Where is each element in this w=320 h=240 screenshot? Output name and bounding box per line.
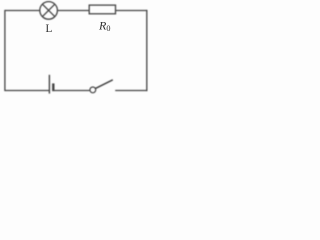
wire bottom-left segment <box>5 90 49 92</box>
switch pivot circle <box>90 87 96 93</box>
wire left vertical <box>4 10 6 91</box>
label L (lamp designator) <box>45 23 52 35</box>
switch blade (open) <box>96 80 113 89</box>
battery long plate (positive) <box>48 75 50 94</box>
svg-text:L: L <box>45 23 52 35</box>
wire top-right segment <box>116 10 148 12</box>
wire between lamp and resistor <box>57 10 89 12</box>
lamp L (circle) <box>40 2 58 20</box>
resistor R0 (box) <box>89 5 115 14</box>
wire right vertical <box>146 10 148 91</box>
battery short plate (negative) <box>52 83 54 91</box>
lamp L cross diagonal 2 <box>42 4 54 16</box>
wire battery to switch <box>54 90 90 92</box>
wire switch to bottom-right corner <box>115 90 147 92</box>
lamp L cross diagonal 1 <box>42 4 54 16</box>
svg-text:0: 0 <box>106 24 110 33</box>
label R0 (resistor designator) <box>98 19 110 33</box>
wire top-left segment <box>5 10 40 12</box>
